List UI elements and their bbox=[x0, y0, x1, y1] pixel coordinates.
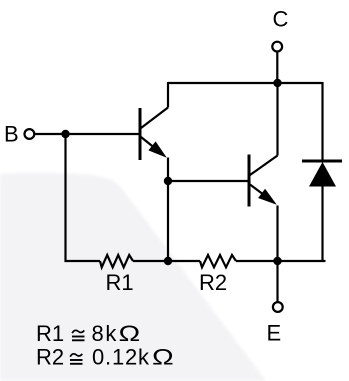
transistor Q2 bbox=[249, 155, 278, 207]
node base junction bbox=[61, 130, 69, 138]
svg-text:R2: R2 bbox=[36, 345, 64, 370]
wire diode anode down bbox=[321, 186, 323, 262]
wire E terminal lead bbox=[276, 261, 278, 302]
resistor R2 bbox=[200, 255, 236, 267]
wire base node down and right to R1 bbox=[66, 134, 101, 261]
node R1-R2 junction bbox=[164, 257, 172, 265]
wire R2 to emitter node bbox=[236, 260, 277, 262]
wire Q2 emitter down bbox=[276, 206, 278, 262]
svg-text:R1: R1 bbox=[36, 321, 64, 346]
svg-text:C: C bbox=[273, 7, 289, 32]
wire Q1 emitter down bbox=[167, 158, 169, 182]
svg-text:Ω: Ω bbox=[152, 346, 174, 370]
wire Q1 collector riser bbox=[167, 82, 169, 108]
resistor R1 bbox=[100, 255, 133, 267]
wire Q2 base bbox=[168, 180, 248, 182]
wire B to base node bbox=[35, 133, 139, 135]
wire Q2 base node down to resistor rail bbox=[167, 181, 169, 261]
node emitter junction bbox=[273, 257, 281, 265]
wire R1 to R2 bbox=[133, 260, 200, 262]
svg-text:Ω: Ω bbox=[119, 322, 141, 346]
svg-text:8k: 8k bbox=[92, 321, 118, 346]
wire top rail bbox=[168, 82, 323, 84]
svg-text:R1: R1 bbox=[106, 270, 134, 295]
wire diode cathode branch bbox=[321, 82, 323, 160]
terminal E bbox=[273, 302, 283, 312]
svg-text:0.12k: 0.12k bbox=[92, 345, 150, 370]
svg-text:E: E bbox=[267, 321, 282, 346]
transistor Q1 bbox=[140, 108, 168, 161]
diode D1 bbox=[302, 161, 342, 187]
node Q2 base junction bbox=[164, 177, 172, 185]
wire C terminal lead bbox=[276, 52, 278, 83]
wire emitter node to diode branch bbox=[278, 260, 326, 262]
wire Q2 collector riser bbox=[276, 83, 278, 156]
terminal C bbox=[272, 42, 282, 52]
terminal B bbox=[25, 129, 35, 139]
label R1 value bbox=[36, 321, 140, 346]
label R2 value bbox=[36, 345, 174, 370]
svg-text:R2: R2 bbox=[199, 270, 227, 295]
svg-text:B: B bbox=[4, 122, 19, 147]
node collector junction bbox=[273, 79, 281, 87]
